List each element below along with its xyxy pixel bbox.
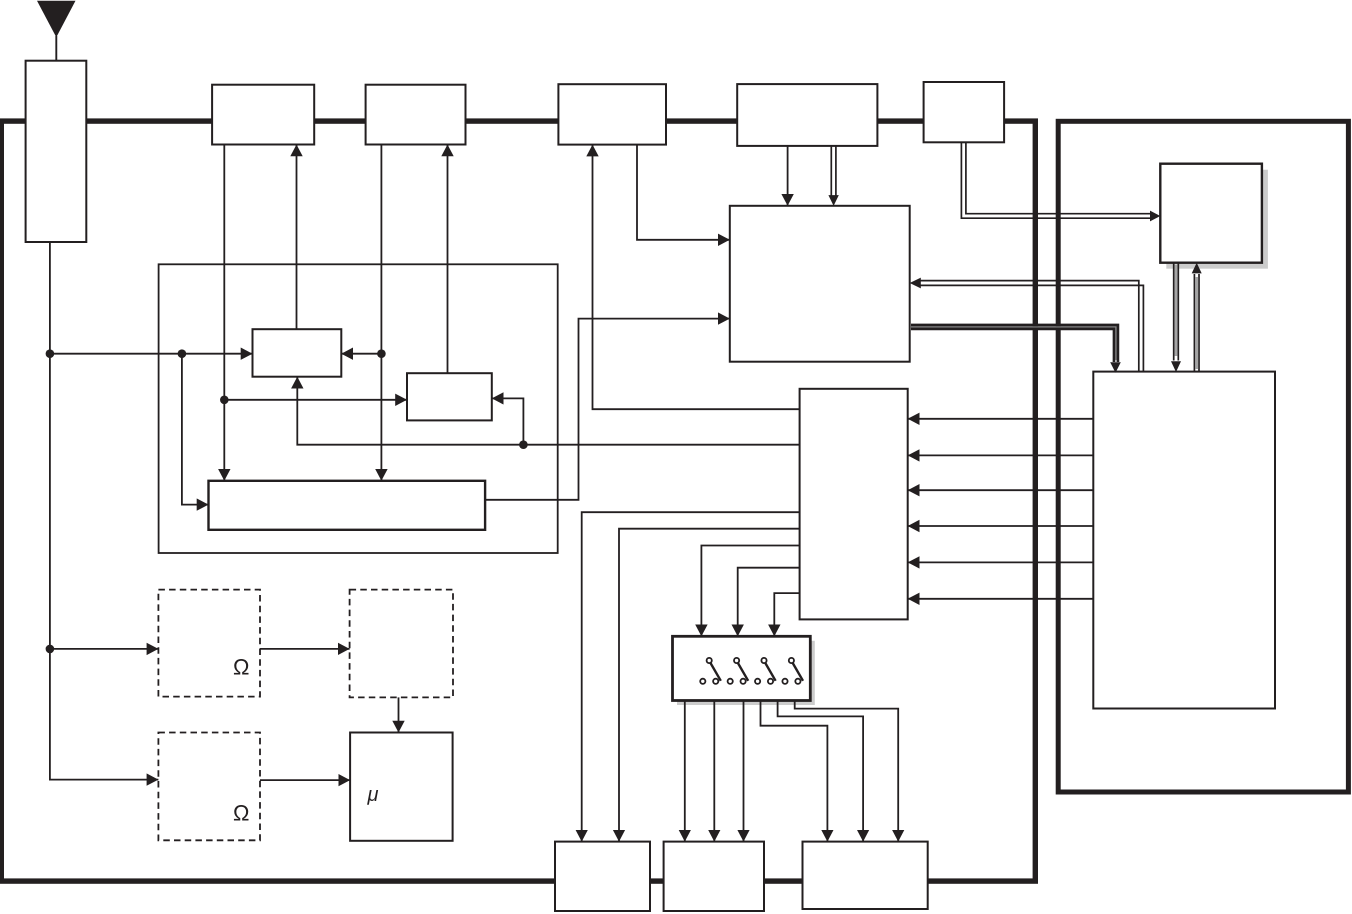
svg-text:Ω: Ω — [233, 654, 249, 679]
svg-text:μ: μ — [367, 784, 379, 806]
svg-text:Ω: Ω — [233, 800, 249, 825]
